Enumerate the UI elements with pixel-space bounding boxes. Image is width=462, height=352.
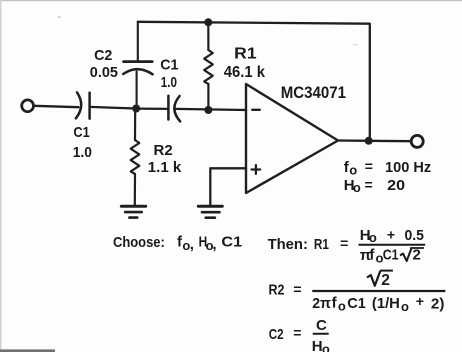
svg-text:o: o [369, 230, 377, 245]
svg-text:o: o [353, 180, 361, 195]
svg-text:2π: 2π [312, 295, 331, 312]
wire node A to C1 series [136, 107, 168, 110]
svg-text:,: , [212, 236, 216, 253]
svg-text:R2: R2 [269, 281, 285, 298]
formula R2 denominator [312, 293, 444, 314]
svg-text:=: = [293, 325, 301, 341]
svg-text:C1: C1 [383, 247, 399, 264]
ground (below R2) [121, 206, 145, 217]
formula R2 fraction bar [312, 290, 445, 292]
op-amp minus sign [252, 109, 260, 111]
svg-text:R1: R1 [234, 46, 257, 63]
resistor R1 [204, 22, 213, 110]
svg-text:+: + [387, 227, 395, 243]
formula C2 fraction bar [313, 333, 329, 335]
label Ho = 20 [344, 177, 405, 196]
wire input to C1 [34, 106, 79, 107]
svg-text:2: 2 [413, 247, 421, 264]
svg-text:2): 2) [431, 296, 445, 313]
svg-text:MC34071: MC34071 [281, 83, 346, 102]
svg-text:C1: C1 [221, 233, 242, 250]
op-amp plus sign [252, 165, 261, 174]
svg-text:C1: C1 [73, 124, 89, 141]
svg-text:R2: R2 [154, 142, 173, 159]
svg-text:=: = [293, 281, 301, 297]
svg-text:1.1 k: 1.1 k [148, 159, 182, 176]
page edge left [0, 0, 1, 352]
svg-text:100 Hz: 100 Hz [385, 159, 431, 176]
bottom-left corner smudge [0, 349, 55, 352]
capacitor C1 (series feedback) [168, 96, 180, 122]
formula R1 numerator Ho + 0.5 [360, 227, 424, 245]
svg-text:46.1 k: 46.1 k [224, 64, 266, 81]
svg-text:C1: C1 [347, 295, 366, 312]
capacitor C2 [123, 22, 152, 109]
wire non-inverting input to ground [210, 168, 246, 205]
ground (op-amp + input) [198, 206, 222, 217]
svg-text:=: = [340, 235, 348, 251]
svg-text:+: + [416, 293, 424, 309]
caption: C2 = [269, 325, 302, 343]
caption: Then R1 = [268, 235, 349, 253]
node A junction [132, 105, 140, 113]
speck [353, 44, 358, 45]
formula R1 denominator pi fo C1 sqrt2 [360, 246, 424, 265]
svg-text:2: 2 [381, 272, 390, 289]
svg-text:C2: C2 [269, 326, 284, 343]
svg-text:,: , [190, 236, 194, 253]
resistor R2 [131, 109, 140, 206]
svg-text:Choose:: Choose: [113, 234, 165, 251]
label fo = 100 Hz [344, 158, 431, 177]
wire C1 to node A [90, 107, 137, 109]
output terminal [411, 135, 423, 147]
caption: R2 = [269, 281, 302, 298]
svg-text:0.5: 0.5 [405, 227, 424, 244]
input terminal [22, 100, 34, 112]
svg-text:o: o [349, 162, 357, 177]
svg-text:(1/H: (1/H [372, 295, 400, 312]
speck [58, 17, 61, 18]
output wire [338, 139, 411, 142]
svg-text:20: 20 [387, 177, 405, 194]
capacitor C1 (input) [76, 92, 90, 118]
node B junction (R1 bottom) [204, 106, 212, 114]
svg-text:Then:: Then: [268, 236, 308, 253]
svg-text:0.05: 0.05 [90, 64, 118, 81]
svg-text:o: o [322, 342, 330, 352]
svg-text:1.0: 1.0 [161, 74, 177, 91]
svg-text:o: o [401, 299, 409, 314]
svg-text:=: = [365, 158, 373, 174]
svg-text:R1: R1 [314, 236, 329, 253]
formula R2 numerator sqrt2 [367, 271, 393, 289]
node C junction (top, R1) [204, 18, 212, 26]
top feedback wire [138, 22, 370, 141]
svg-text:C2: C2 [94, 47, 112, 64]
node D junction (output) [365, 137, 373, 145]
svg-text:=: = [365, 177, 373, 193]
formula R1 fraction bar [359, 244, 426, 246]
svg-text:1.0: 1.0 [73, 144, 92, 161]
wire C1 series to op-amp inverting input [176, 109, 247, 110]
svg-text:C1: C1 [160, 56, 178, 73]
formula C2 denominator Ho [312, 338, 330, 352]
caption: Choose line [113, 233, 242, 253]
svg-text:o: o [338, 299, 346, 314]
op-amp U1 [246, 84, 338, 193]
svg-text:C: C [316, 317, 327, 334]
page edge top [0, 0, 462, 1]
